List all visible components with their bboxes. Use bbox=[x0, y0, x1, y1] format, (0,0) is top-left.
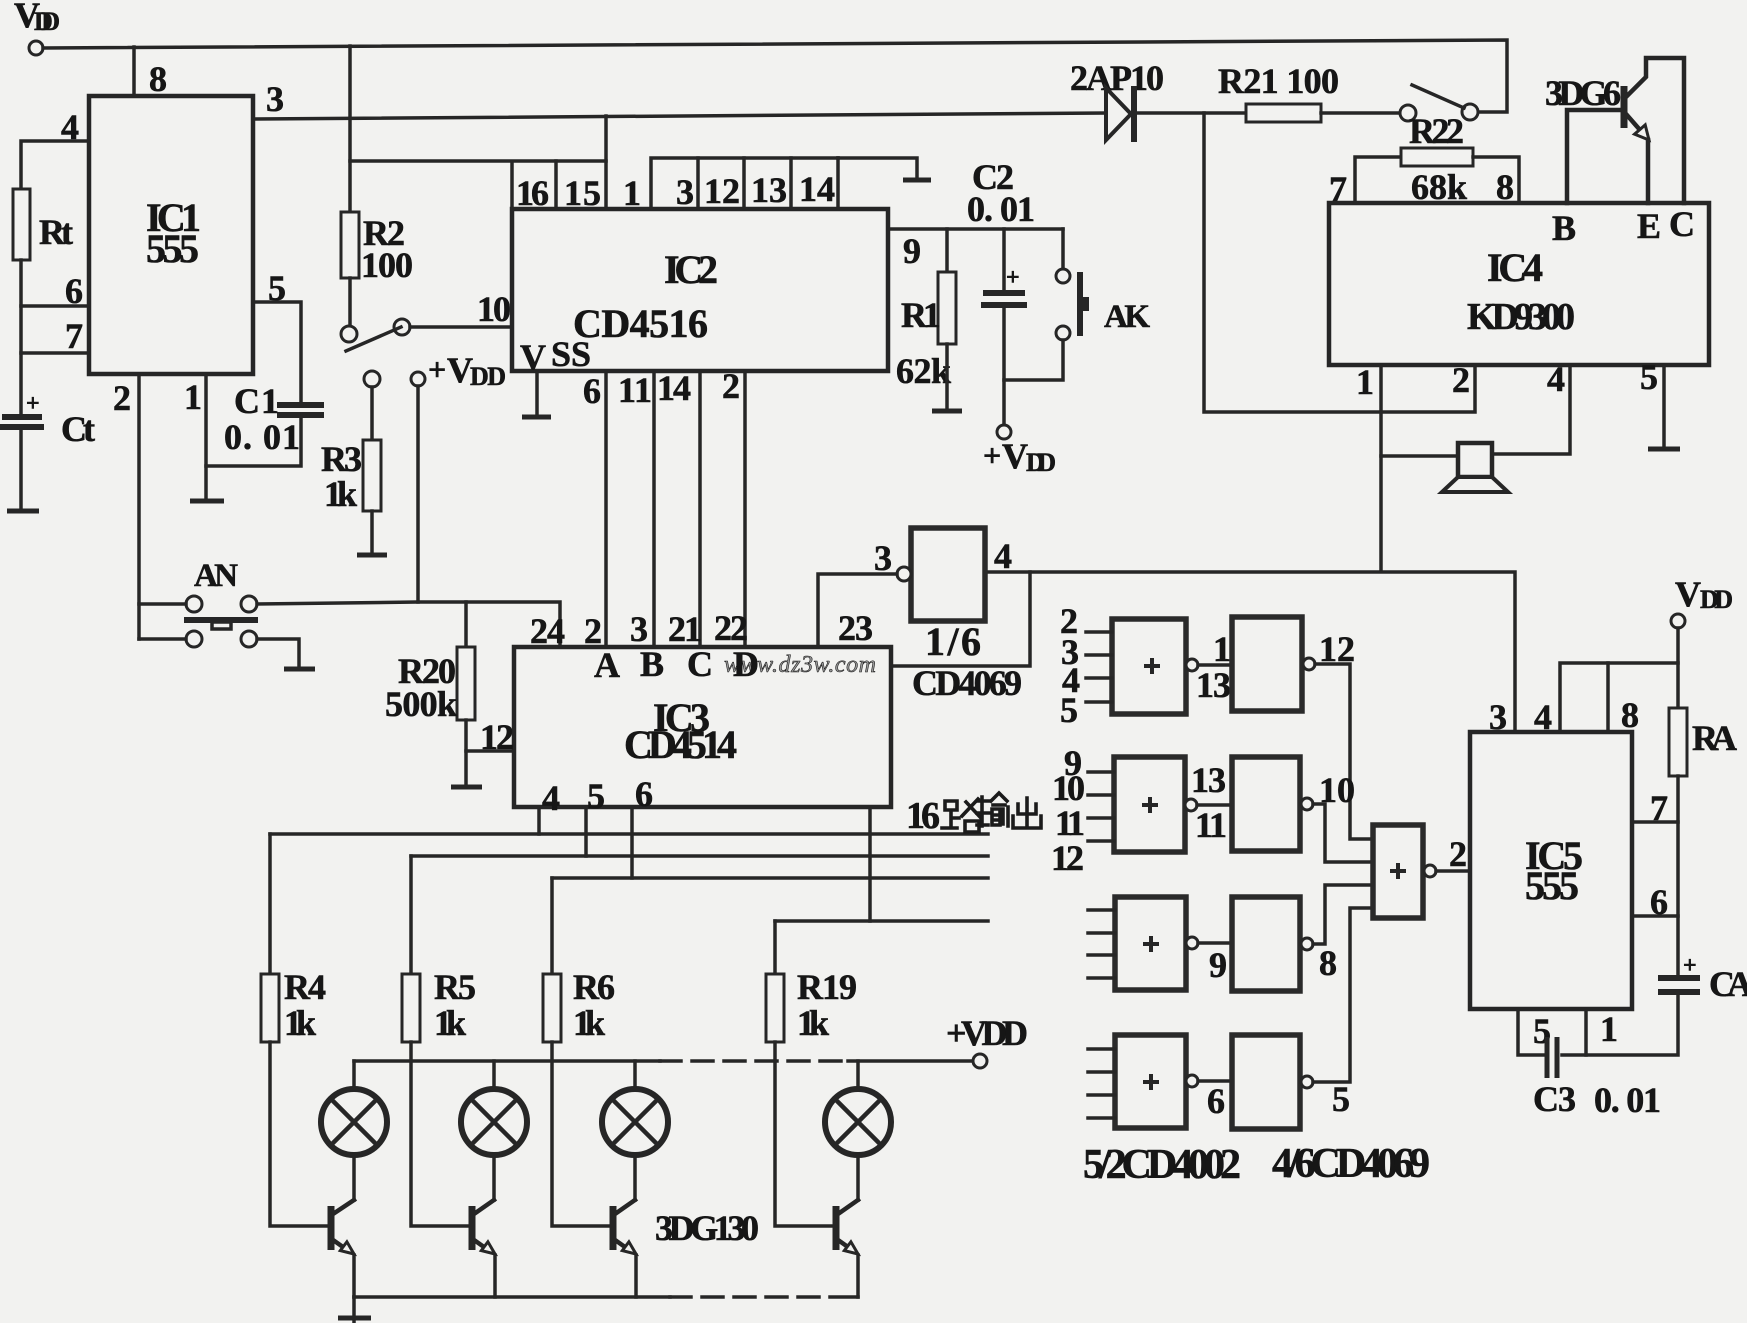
wire R2 to switch bbox=[348, 278, 352, 325]
wire G4 out bbox=[1198, 1079, 1232, 1083]
inverter N4 bbox=[1232, 1035, 1313, 1129]
wire IC1 pin1 to ground bbox=[204, 374, 208, 500]
wire R2 to IC2 pin16 bbox=[350, 159, 606, 163]
svg-text:5: 5 bbox=[1332, 1079, 1350, 1119]
svg-text:3DG130: 3DG130 bbox=[655, 1208, 759, 1248]
wire lamp rail dashed bbox=[660, 1059, 848, 1063]
svg-text:V: V bbox=[1002, 436, 1028, 476]
capacitor C3 bbox=[1533, 1037, 1661, 1120]
svg-text:8: 8 bbox=[1621, 695, 1639, 735]
wire R6 to Q4 base bbox=[552, 1042, 610, 1226]
wire N2 out to final gate bbox=[1313, 804, 1373, 862]
svg-text:C: C bbox=[687, 644, 713, 684]
svg-text:IC4: IC4 bbox=[1487, 245, 1543, 290]
wire bus1 bbox=[270, 832, 988, 836]
svg-text:DD: DD bbox=[34, 7, 60, 36]
svg-text:1: 1 bbox=[1213, 629, 1231, 669]
svg-text:5: 5 bbox=[587, 776, 605, 816]
wire bus2 to R5 bbox=[409, 856, 413, 974]
svg-text:1k: 1k bbox=[434, 1003, 466, 1043]
svg-text:3: 3 bbox=[1489, 697, 1507, 737]
svg-text:12: 12 bbox=[1051, 838, 1084, 878]
svg-text:12: 12 bbox=[704, 171, 740, 211]
svg-text:AN: AN bbox=[194, 558, 238, 594]
svg-text:5: 5 bbox=[1060, 690, 1078, 730]
resistor R20 bbox=[385, 647, 475, 724]
wire pin1 down bbox=[1584, 1009, 1588, 1055]
svg-text:8: 8 bbox=[149, 59, 167, 99]
transistor Q1 3DG6 bbox=[1545, 58, 1684, 203]
inverter N3 bbox=[1232, 897, 1313, 991]
lamp HL3 bbox=[602, 1061, 668, 1155]
wire R20 to IC3 pin12 bbox=[466, 749, 514, 753]
wire R1 top bbox=[945, 229, 949, 272]
svg-text:R1: R1 bbox=[901, 295, 941, 335]
wire VDD right rail bbox=[1560, 628, 1678, 732]
wire R21 to S2 bbox=[1321, 111, 1400, 115]
wire to R3 bbox=[370, 387, 374, 440]
node VDD label bbox=[14, 0, 60, 36]
transistor Q2 3DG130 bbox=[331, 1155, 354, 1297]
speaker LS bbox=[1442, 443, 1508, 492]
svg-text:13: 13 bbox=[751, 170, 787, 210]
wire AK bottom bbox=[1004, 340, 1063, 380]
ground R20 bbox=[451, 785, 482, 790]
terminal VDD bbox=[29, 41, 43, 55]
wire IC3 pin4 to bus1 bbox=[537, 807, 541, 834]
svg-text:21: 21 bbox=[668, 609, 702, 649]
terminal +VDD a bbox=[364, 371, 380, 387]
svg-text:R3: R3 bbox=[321, 439, 362, 479]
svg-text:R22: R22 bbox=[1409, 111, 1464, 151]
terminal VDD right bbox=[1671, 614, 1685, 628]
svg-text:IC2: IC2 bbox=[664, 247, 718, 292]
svg-text:KD9300: KD9300 bbox=[1467, 296, 1575, 338]
switch S1 bbox=[341, 319, 410, 351]
wire diode to R21 bbox=[1137, 111, 1246, 115]
svg-text:14: 14 bbox=[657, 368, 691, 408]
wire R5 to Q3 base bbox=[411, 1042, 469, 1226]
wire bus4 bbox=[775, 919, 988, 923]
wire R20 bottom to ground bbox=[464, 720, 468, 786]
wire R4 to Q2 base bbox=[270, 1042, 328, 1226]
wire bus3 to R6 bbox=[550, 878, 554, 974]
lamp HL4 bbox=[825, 1061, 891, 1155]
wire IC1 pin2 down to AN bbox=[137, 374, 141, 639]
wire AN lower right to ground bbox=[257, 639, 299, 668]
svg-text:6: 6 bbox=[583, 371, 601, 411]
terminal +VDD lamps bbox=[973, 1054, 987, 1068]
pin 3 12 13 14 callout boxes bbox=[651, 158, 838, 209]
wire IC2 pin6 to IC3 A bbox=[604, 371, 608, 647]
ground IC4 pin5 bbox=[1648, 447, 1680, 452]
lamp HL2 bbox=[461, 1061, 527, 1155]
wire G3 out bbox=[1198, 941, 1232, 945]
wire IC3 pin right to bus4 bbox=[868, 807, 872, 921]
wire N4 out to final gate bbox=[1313, 908, 1373, 1082]
wire pin4 bbox=[21, 141, 89, 190]
wire RA top bbox=[1676, 663, 1680, 708]
resistor R1 bbox=[896, 272, 956, 391]
svg-text:Rt: Rt bbox=[39, 212, 73, 252]
svg-text:6: 6 bbox=[1650, 882, 1668, 922]
wire IC2 pin11 to IC3 B bbox=[652, 371, 656, 647]
svg-text:5: 5 bbox=[1640, 357, 1658, 397]
IC U2: IC2 CD4516 box bbox=[512, 209, 888, 371]
node +VDD label bbox=[428, 350, 506, 391]
switch S2 bbox=[1400, 85, 1478, 121]
ground callout bbox=[903, 178, 931, 183]
diode 2AP10 bbox=[1070, 58, 1164, 142]
svg-text:3: 3 bbox=[630, 609, 648, 649]
svg-text:Ct: Ct bbox=[61, 409, 95, 449]
wire diode node down bbox=[1204, 113, 1475, 412]
wire Ct to ground bbox=[19, 430, 23, 510]
svg-text:22: 22 bbox=[714, 608, 748, 648]
svg-text:3: 3 bbox=[874, 538, 892, 578]
svg-text:8: 8 bbox=[1319, 943, 1337, 983]
wire pin6 to CA bbox=[1676, 916, 1680, 974]
svg-text:9: 9 bbox=[903, 231, 921, 271]
svg-text:6: 6 bbox=[635, 774, 653, 814]
inverter N1 bbox=[1232, 617, 1315, 711]
wire emitter bus solid bbox=[354, 1295, 670, 1299]
svg-text:2: 2 bbox=[1449, 834, 1467, 874]
wire pin8 drop bbox=[1606, 663, 1610, 732]
svg-text:+VDD: +VDD bbox=[946, 1013, 1028, 1053]
NOR gate G3 bbox=[1088, 897, 1198, 990]
svg-text:62k: 62k bbox=[896, 351, 951, 391]
svg-text:+: + bbox=[983, 437, 1001, 473]
wire audio line to IC5 pin3 bbox=[985, 572, 1515, 732]
ground VSS bbox=[522, 415, 551, 420]
wire S1 to IC2 pin10 bbox=[410, 325, 512, 329]
node VDD label right bbox=[1675, 574, 1733, 614]
resistor Rt bbox=[13, 189, 73, 260]
svg-text:+: + bbox=[26, 391, 40, 417]
svg-text:7: 7 bbox=[1650, 788, 1668, 828]
svg-text:11: 11 bbox=[1055, 803, 1085, 843]
svg-text:24: 24 bbox=[530, 611, 565, 651]
wire AN left lower stub bbox=[139, 637, 186, 641]
svg-text:R19: R19 bbox=[797, 967, 857, 1007]
wire G2 out bbox=[1197, 803, 1232, 807]
wire callout to ground bbox=[838, 158, 917, 178]
svg-text:1k: 1k bbox=[284, 1003, 316, 1043]
pin 16 15 callout box bbox=[512, 161, 556, 209]
wire VSS ground bbox=[535, 371, 539, 416]
transistor Q5 3DG130 bbox=[836, 1155, 858, 1297]
wire pin7 to pin6 bbox=[1632, 822, 1678, 916]
wire AN to IC3 pin24 bbox=[257, 602, 560, 647]
svg-text:2: 2 bbox=[1452, 360, 1470, 400]
resistor R4 bbox=[261, 967, 326, 1043]
wire IC1 pin8 drop bbox=[132, 47, 136, 96]
net VSS label bbox=[520, 334, 591, 377]
svg-text:C: C bbox=[1669, 204, 1695, 244]
wire IC2 pin14 to IC3 C bbox=[698, 371, 702, 647]
svg-text:555: 555 bbox=[1525, 863, 1579, 908]
svg-text:11: 11 bbox=[1195, 805, 1227, 845]
svg-text:10: 10 bbox=[477, 289, 511, 329]
svg-text:4: 4 bbox=[542, 778, 560, 818]
capacitor Ct bbox=[0, 391, 95, 449]
svg-text:A: A bbox=[594, 645, 620, 685]
resistor RA bbox=[1669, 708, 1737, 776]
svg-text:DD: DD bbox=[470, 362, 506, 391]
wire CA bottom bbox=[1562, 995, 1678, 1055]
svg-text:4: 4 bbox=[1547, 359, 1565, 399]
svg-text:23: 23 bbox=[838, 608, 873, 648]
lamp HL1 bbox=[321, 1061, 387, 1155]
svg-text:4/6CD4069: 4/6CD4069 bbox=[1272, 1141, 1430, 1187]
wire pin5 to C3 bbox=[1518, 1009, 1544, 1055]
wire +VDD b down to AN line bbox=[416, 386, 420, 602]
svg-text:1/6: 1/6 bbox=[925, 619, 981, 664]
wire ground stem bbox=[352, 1297, 356, 1323]
svg-text:1k: 1k bbox=[797, 1003, 829, 1043]
ground R3 bbox=[357, 553, 387, 558]
wire IC3 pin5 to bus2 bbox=[584, 807, 588, 856]
wire VDD rail bbox=[43, 40, 1507, 112]
transistor Q4 3DG130 bbox=[613, 1155, 636, 1297]
svg-text:1: 1 bbox=[623, 173, 641, 213]
inverter 1/6 CD4069 bbox=[874, 528, 1022, 703]
svg-text:0. 01: 0. 01 bbox=[967, 189, 1035, 229]
NOR gate G2 bbox=[1088, 757, 1197, 852]
IC U3: IC3 CD4514 box bbox=[514, 647, 891, 807]
resistor R3 bbox=[321, 439, 381, 514]
resistor R5 bbox=[402, 967, 476, 1043]
wire R20 top bbox=[464, 602, 468, 647]
wire speaker right to pin4 bbox=[1492, 365, 1570, 454]
svg-text:V: V bbox=[520, 337, 546, 377]
svg-text:1k: 1k bbox=[324, 474, 357, 514]
svg-text:V: V bbox=[1675, 574, 1701, 614]
wire speaker left bbox=[1381, 454, 1458, 458]
wire emitter bus right bbox=[830, 1295, 858, 1299]
wire pin6 bbox=[21, 304, 89, 308]
svg-text:100: 100 bbox=[361, 245, 413, 285]
wire R2 drop bbox=[348, 46, 352, 212]
wire pin5 to C1 bbox=[253, 302, 301, 403]
svg-text:DD: DD bbox=[1700, 585, 1733, 614]
ground Ct bbox=[7, 509, 39, 514]
transistor Q3 3DG130 bbox=[472, 1155, 495, 1297]
svg-text:11: 11 bbox=[618, 370, 652, 410]
svg-text:500k: 500k bbox=[385, 684, 457, 724]
svg-text:+: + bbox=[428, 351, 446, 387]
wire R19 to Q5 base bbox=[775, 1042, 831, 1226]
svg-text:AK: AK bbox=[1104, 299, 1150, 335]
wire lamp rail solid left bbox=[354, 1059, 660, 1063]
svg-text:4: 4 bbox=[994, 536, 1012, 576]
wire inverter input from IC3 pin23 bbox=[818, 574, 897, 647]
label 16-way output bbox=[906, 793, 1041, 837]
wire pin7 bbox=[21, 351, 89, 355]
wire R3 to ground bbox=[370, 511, 374, 554]
NOR gate G1 bbox=[1086, 619, 1198, 714]
svg-text:10: 10 bbox=[1052, 768, 1085, 808]
resistor R2 bbox=[341, 212, 413, 285]
svg-text:2: 2 bbox=[113, 378, 131, 418]
IC U4: IC4 KD9300 box bbox=[1329, 203, 1709, 365]
svg-text:14: 14 bbox=[799, 169, 835, 209]
wire bus4 to R19 bbox=[773, 921, 777, 974]
svg-text:555: 555 bbox=[146, 226, 199, 271]
svg-text:R6: R6 bbox=[573, 967, 615, 1007]
inverter N2 bbox=[1232, 757, 1313, 851]
svg-text:SS: SS bbox=[551, 334, 591, 374]
IC U5: IC5 555 box bbox=[1470, 732, 1632, 1009]
svg-text:0. 01: 0. 01 bbox=[1594, 1080, 1661, 1120]
svg-text:C1: C1 bbox=[234, 381, 279, 421]
svg-text:B: B bbox=[640, 644, 664, 684]
svg-text:5/2CD4002: 5/2CD4002 bbox=[1083, 1142, 1241, 1188]
ground AN bbox=[284, 667, 315, 672]
wire bus2 bbox=[411, 854, 988, 858]
wire N3 out to final gate bbox=[1313, 885, 1373, 944]
terminal +VDD C2 bbox=[997, 425, 1011, 439]
NOR gate G5 final bbox=[1373, 825, 1436, 918]
wire IC2 pin2 to IC3 D bbox=[743, 371, 747, 647]
svg-text:7: 7 bbox=[65, 316, 83, 356]
svg-text:D: D bbox=[733, 644, 759, 684]
wire RA to pin7 bbox=[1632, 776, 1678, 822]
svg-text:16: 16 bbox=[516, 173, 549, 213]
svg-text:12: 12 bbox=[480, 717, 514, 757]
wire G1 out bbox=[1198, 663, 1232, 667]
wire IC4 pin5 ground bbox=[1662, 365, 1666, 448]
svg-text:B: B bbox=[1552, 208, 1576, 248]
wire IC3 pin6 to bus3 bbox=[630, 807, 634, 878]
wire R1 bottom bbox=[945, 344, 949, 410]
svg-text:CA: CA bbox=[1709, 964, 1747, 1004]
svg-text:2AP10: 2AP10 bbox=[1070, 58, 1164, 98]
capacitor C1 bbox=[224, 381, 324, 457]
svg-text:9: 9 bbox=[1209, 945, 1227, 985]
pushbutton AN bbox=[184, 558, 258, 647]
svg-text:1: 1 bbox=[1356, 362, 1374, 402]
wire bus3 bbox=[552, 876, 988, 880]
svg-text:3DG6: 3DG6 bbox=[1545, 73, 1621, 113]
node +VDD label bbox=[983, 436, 1056, 477]
svg-text:CD4514: CD4514 bbox=[624, 722, 737, 767]
resistor R19 bbox=[766, 967, 857, 1043]
wire IC2 pin9 net bbox=[888, 227, 1063, 231]
svg-text:2: 2 bbox=[722, 366, 740, 406]
svg-text:CD4516: CD4516 bbox=[573, 301, 708, 346]
svg-text:R4: R4 bbox=[284, 967, 326, 1007]
ground emitter bus bbox=[338, 1316, 371, 1321]
svg-text:1: 1 bbox=[184, 377, 202, 417]
svg-text:R5: R5 bbox=[434, 967, 476, 1007]
wire bus1 to R4 bbox=[268, 834, 272, 974]
capacitor CA bbox=[1658, 953, 1747, 1004]
svg-text:1: 1 bbox=[1600, 1009, 1618, 1049]
resistor R22 with loop bbox=[1355, 111, 1519, 207]
ground IC1 pin1 bbox=[190, 499, 224, 504]
pin in labels G1 bbox=[1060, 601, 1080, 730]
resistor R6 bbox=[543, 967, 615, 1043]
svg-text:15: 15 bbox=[564, 173, 601, 213]
svg-text:DD: DD bbox=[1026, 448, 1056, 477]
svg-text:3: 3 bbox=[676, 172, 694, 212]
svg-text:13: 13 bbox=[1191, 760, 1226, 800]
svg-text:4: 4 bbox=[1534, 697, 1552, 737]
svg-text:CD4069: CD4069 bbox=[912, 663, 1022, 703]
pushbutton AK bbox=[1056, 229, 1150, 340]
svg-text:R21 100: R21 100 bbox=[1218, 61, 1339, 101]
svg-text:1k: 1k bbox=[573, 1003, 605, 1043]
ground R1 bbox=[932, 409, 962, 414]
wire branch to IC3 right pin bbox=[891, 572, 1030, 666]
wire G5 out to IC5 pin2 bbox=[1436, 869, 1470, 873]
wire IC2 pin1 from IC1 pin3 bbox=[604, 116, 608, 209]
wire emitter bus dashed bbox=[670, 1295, 830, 1299]
wire N1 out to final gate bbox=[1315, 664, 1373, 839]
pin in labels G2 bbox=[1051, 743, 1085, 878]
wire Rt to Ct bbox=[19, 260, 23, 413]
wire lamp rail right bbox=[848, 1059, 972, 1063]
svg-text:3: 3 bbox=[266, 79, 284, 119]
wire IC1 pin3 to diode bbox=[253, 113, 1106, 119]
terminal +VDD b bbox=[411, 372, 425, 386]
wire AN left stubs bbox=[139, 602, 186, 606]
svg-text:RA: RA bbox=[1692, 718, 1737, 758]
svg-text:16: 16 bbox=[906, 795, 940, 837]
svg-text:E: E bbox=[1637, 206, 1661, 246]
wire C1 return to pin1 bbox=[206, 417, 301, 466]
NOR gate G4 bbox=[1088, 1035, 1198, 1128]
svg-text:6: 6 bbox=[1207, 1081, 1225, 1121]
resistor R21 bbox=[1218, 61, 1339, 122]
svg-text:13: 13 bbox=[1196, 665, 1231, 705]
op-amp U1: IC1 555 box bbox=[89, 96, 253, 374]
wire IC4 pin1 down bbox=[1379, 365, 1383, 571]
svg-text:+: + bbox=[1006, 265, 1020, 291]
svg-text:C3: C3 bbox=[1533, 1079, 1576, 1119]
capacitor C2 bbox=[967, 157, 1035, 425]
